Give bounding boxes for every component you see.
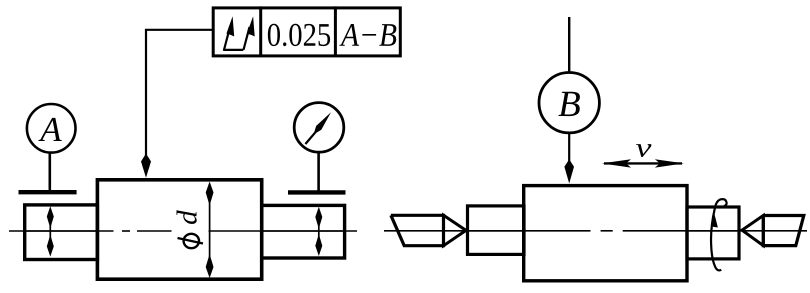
dial indicator circle xyxy=(294,103,344,153)
left lathe center cone xyxy=(444,215,467,245)
svg-text:v: v xyxy=(636,132,653,163)
shaft body right figure xyxy=(524,186,687,281)
centerline right figure xyxy=(384,230,807,232)
svg-text:0.025: 0.025 xyxy=(267,18,332,54)
gauge A stem xyxy=(48,153,51,192)
svg-text:d: d xyxy=(172,210,204,225)
shaft body left figure xyxy=(97,180,261,279)
right journal left figure xyxy=(262,205,345,258)
total runout symbol xyxy=(223,16,255,50)
dial anvil bar xyxy=(288,190,346,194)
dial needle xyxy=(305,112,331,144)
svg-text:B: B xyxy=(558,84,581,125)
svg-text:A: A xyxy=(38,110,62,149)
left journal right figure xyxy=(468,206,525,255)
phi-d label phi symbol xyxy=(178,234,204,248)
measure arrow in right journal xyxy=(315,207,322,256)
arrow below B xyxy=(564,134,574,184)
tolerance frame divider 2 xyxy=(334,6,337,56)
left lathe center body xyxy=(391,215,444,245)
svg-text:A−B: A−B xyxy=(339,18,397,54)
right lathe center cone xyxy=(742,216,763,246)
right journal right figure xyxy=(687,207,739,259)
leader line from frame xyxy=(146,30,213,156)
rotation arrow xyxy=(711,199,727,270)
velocity arrow xyxy=(602,159,684,167)
leader arrowhead xyxy=(141,154,151,178)
tolerance frame box xyxy=(213,8,400,56)
datum ball B circle xyxy=(539,73,599,133)
tolerance frame divider 1 xyxy=(259,6,262,56)
centerline redraw over rects xyxy=(26,230,343,232)
measure arrow in left journal xyxy=(47,206,54,256)
datum gauge A circle xyxy=(27,104,76,153)
centerline left figure xyxy=(9,230,357,232)
line above B xyxy=(568,17,570,72)
right lathe center body xyxy=(763,216,804,246)
phi-d dimension line xyxy=(206,182,214,279)
centerline redraw right figure xyxy=(469,230,737,232)
dial stem xyxy=(317,152,320,192)
left journal left figure xyxy=(25,205,98,260)
velocity label v xyxy=(636,132,653,163)
gauge A anvil bar xyxy=(19,190,77,194)
